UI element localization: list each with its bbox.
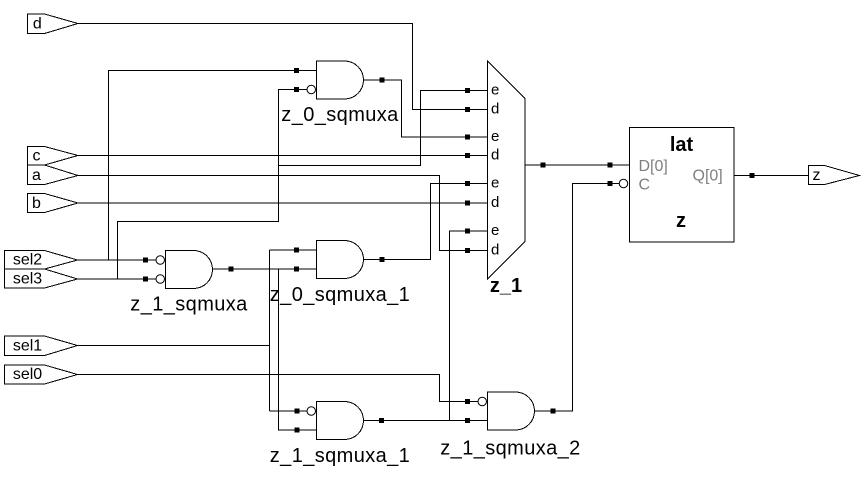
svg-text:d: d (33, 16, 42, 33)
pin dot z_1_sqmuxa in2 (143, 277, 148, 282)
svg-text:z_1_sqmuxa_2: z_1_sqmuxa_2 (440, 438, 580, 460)
svg-text:b: b (32, 195, 41, 212)
pin dot mux pin 3 (465, 135, 470, 140)
and-gate z_0_sqmuxa (317, 61, 364, 99)
bubble on z_1_sqmuxa_2 in1 (478, 397, 487, 406)
wire net z_0_sqmuxa_1 output to mux pin 5 (364, 184, 488, 260)
svg-text:sel0: sel0 (13, 366, 42, 383)
svg-text:d: d (491, 242, 499, 259)
and-gate z_0_sqmuxa_1 (317, 241, 364, 279)
pin dot z_1_sqmuxa_1 in1 (295, 409, 300, 414)
pin dot z_0_sqmuxa_1 out (380, 257, 385, 262)
output port z (809, 166, 860, 185)
pin dot z_0_sqmuxa in2 (294, 87, 299, 92)
bubble on z_1_sqmuxa in1 (156, 256, 165, 265)
svg-text:z_1_sqmuxa_1: z_1_sqmuxa_1 (270, 445, 410, 467)
bubble on z_0_sqmuxa in2 (307, 85, 316, 94)
pin dot latch C (608, 181, 613, 186)
bubble on z_1_sqmuxa_1 in1 (307, 407, 316, 416)
wire net sel1: port sel1 to z_0_sqmuxa_1 in1 and z_1_sqmuxa_1 in1 (78, 250, 317, 411)
svg-text:C: C (639, 177, 651, 194)
input port b (28, 194, 79, 213)
svg-text:d: d (491, 194, 499, 211)
input port sel0 (5, 365, 78, 384)
svg-text:e: e (491, 82, 499, 99)
wire net sel3: port sel3 to z_1_sqmuxa in2, z_0_sqmuxa in2 and mux pin 1 (78, 90, 488, 280)
svg-text:z_1: z_1 (490, 275, 522, 297)
pin dot mux out (541, 163, 546, 168)
pin dot mux pin 1 (465, 88, 470, 93)
svg-text:e: e (491, 128, 499, 145)
pin dot mux pin 2 (465, 107, 470, 112)
wire net z_1_sqmuxa_2 output to latch C input (535, 184, 620, 412)
wire net c: port c to mux pin 4 (78, 155, 488, 157)
and-gate z_1_sqmuxa (166, 251, 213, 289)
pin dot z_1_sqmuxa out (229, 267, 234, 272)
svg-text:z_0_sqmuxa_1: z_0_sqmuxa_1 (270, 284, 410, 306)
wire net z_1_sqmuxa_1 output to z_1_sqmuxa_2 in2 and mux pin 7 (364, 231, 488, 421)
pin dot z_1_sqmuxa_1 out (379, 418, 384, 423)
input port d (28, 14, 79, 34)
input port sel2 (5, 251, 78, 270)
pin dot mux pin 6 (465, 201, 470, 206)
pin dot z_1_sqmuxa in1 (143, 258, 148, 263)
svg-text:z: z (813, 167, 821, 184)
bubble on z_1_sqmuxa in2 (156, 275, 165, 284)
pin dot z_0_sqmuxa_1 in2 (294, 267, 299, 272)
wire net latch Q output to port z (734, 175, 809, 177)
pin dot mux pin 8 (465, 248, 470, 253)
svg-text:sel1: sel1 (13, 337, 42, 354)
svg-text:z_1_sqmuxa: z_1_sqmuxa (130, 294, 248, 316)
svg-text:sel2: sel2 (13, 252, 42, 269)
svg-text:D[0]: D[0] (639, 158, 668, 175)
svg-text:c: c (33, 147, 41, 164)
svg-text:d: d (491, 101, 499, 118)
svg-text:d: d (491, 147, 499, 164)
input port c (28, 147, 79, 166)
wire net mux z_1 output to latch D input (525, 164, 630, 166)
svg-text:z: z (676, 210, 686, 232)
wire net z_0_sqmuxa output to mux pin 3 (364, 80, 488, 137)
svg-text:lat: lat (670, 134, 694, 156)
pin dot z_0_sqmuxa in1 (294, 68, 299, 73)
input port sel3 (5, 269, 78, 288)
pin dot mux pin 7 (465, 229, 470, 234)
bubble on latch C input (619, 179, 628, 188)
and-gate z_1_sqmuxa_1 (317, 402, 364, 440)
pin dot z_1_sqmuxa_2 in2 (465, 418, 470, 423)
input port sel1 (5, 336, 78, 356)
svg-text:Q[0]: Q[0] (693, 168, 723, 185)
pin dot mux pin 4 (465, 153, 470, 158)
input port a (28, 165, 79, 185)
svg-text:sel3: sel3 (13, 271, 42, 288)
svg-text:a: a (32, 167, 41, 184)
wire net a: port a to mux pin 8 (78, 176, 488, 251)
and-gate z_1_sqmuxa_2 (488, 392, 535, 430)
svg-text:e: e (491, 175, 499, 192)
wire net b: port b to mux pin 6 (78, 202, 488, 204)
pin dot mux pin 5 (465, 181, 470, 186)
pin dot z_1_sqmuxa_1 in2 (295, 428, 300, 433)
wire net z_1_sqmuxa output to z_0_sqmuxa_1 in2 and z_1_sqmuxa_1 in2 (213, 269, 317, 430)
pin dot latch Q (750, 173, 755, 178)
wire net d: port d to mux pin 2 (78, 24, 488, 110)
svg-text:z_0_sqmuxa: z_0_sqmuxa (281, 104, 399, 126)
wire net sel0: port sel0 to z_1_sqmuxa_2 in1 (78, 375, 478, 402)
pin dot z_1_sqmuxa_2 in1 (465, 399, 470, 404)
latch z (lat) (630, 128, 735, 243)
svg-text:e: e (491, 222, 499, 239)
pin dot z_0_sqmuxa out (380, 78, 385, 83)
mux z_1 (488, 61, 526, 279)
pin dot latch D (608, 163, 613, 168)
pin dot z_0_sqmuxa_1 in1 (294, 248, 299, 253)
wire net sel2: port sel2 to z_1_sqmuxa in1 and z_0_sqmuxa in1 (78, 71, 317, 261)
pin dot z_1_sqmuxa_2 out (551, 409, 556, 414)
